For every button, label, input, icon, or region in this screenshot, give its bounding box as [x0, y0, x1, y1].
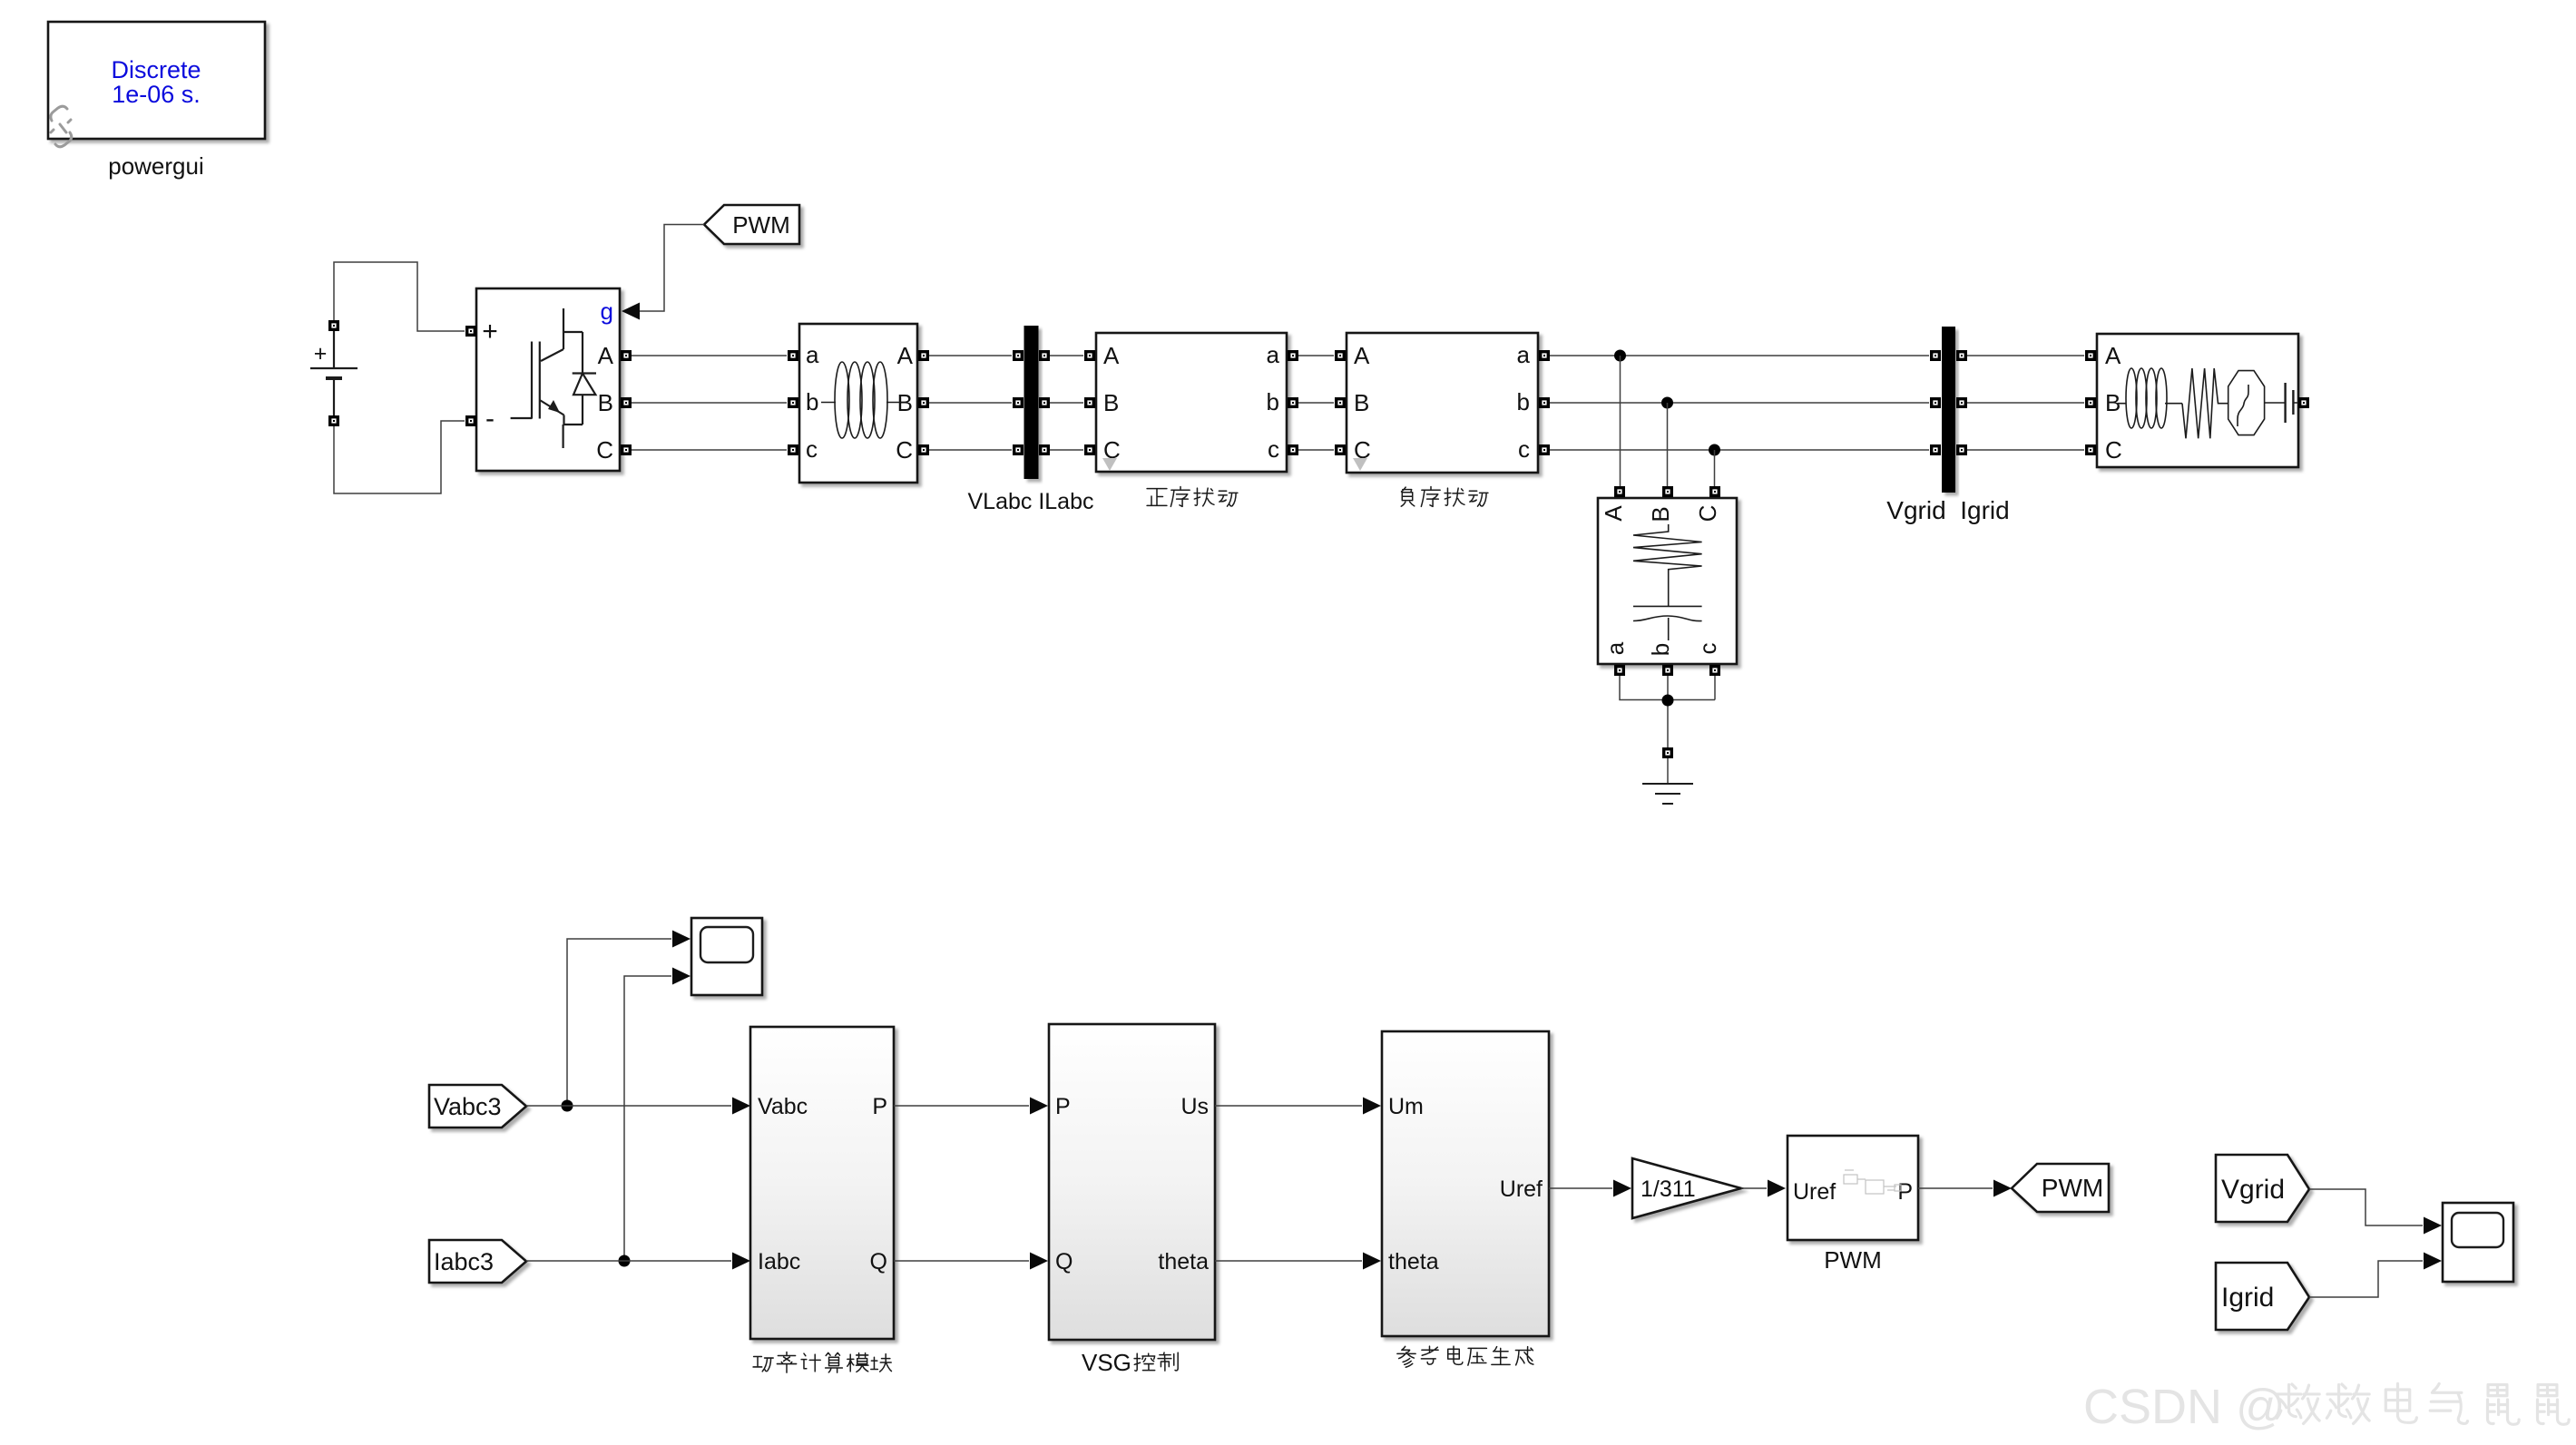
svg-text:powergui: powergui [108, 152, 204, 180]
svg-text:c: c [1268, 435, 1279, 463]
svg-text:C: C [596, 436, 613, 464]
svg-text:Iabc3: Iabc3 [434, 1248, 494, 1275]
svg-text:A: A [598, 342, 614, 369]
svg-text:Vgrid: Vgrid [2221, 1175, 2285, 1205]
svg-text:c: c [1694, 643, 1721, 655]
svg-text:C: C [896, 436, 913, 464]
svg-text:c: c [806, 435, 818, 463]
svg-text:Us: Us [1180, 1094, 1209, 1119]
svg-text:A: A [1600, 505, 1627, 522]
svg-text:b: b [1517, 388, 1530, 415]
svg-text:P: P [1897, 1179, 1913, 1205]
svg-text:PWM: PWM [1824, 1246, 1882, 1274]
svg-text:P: P [872, 1094, 887, 1119]
svg-text:a: a [1517, 341, 1531, 368]
svg-text:a: a [806, 341, 819, 368]
svg-text:1/311: 1/311 [1641, 1177, 1696, 1202]
svg-text:a: a [1601, 641, 1629, 655]
svg-text:Discrete: Discrete [111, 56, 201, 83]
svg-text:-: - [485, 404, 495, 434]
svg-text:Vgrid Igrid: Vgrid Igrid [1886, 496, 2009, 524]
svg-text:A: A [1354, 342, 1370, 369]
svg-text:C: C [2105, 436, 2122, 464]
svg-text:Igrid: Igrid [2221, 1283, 2274, 1313]
svg-text:+: + [482, 317, 498, 347]
svg-text:b: b [1267, 388, 1279, 415]
svg-text:Um: Um [1388, 1094, 1424, 1119]
svg-text:Q: Q [870, 1249, 887, 1274]
svg-text:A: A [897, 342, 914, 369]
svg-text:+: + [314, 341, 328, 366]
svg-text:Uref: Uref [1500, 1177, 1543, 1202]
svg-text:B: B [1103, 389, 1119, 416]
svg-text:Uref: Uref [1793, 1179, 1836, 1205]
svg-text:g: g [601, 298, 613, 325]
svg-text:A: A [2105, 342, 2121, 369]
svg-text:B: B [1354, 389, 1369, 416]
svg-text:a: a [1267, 341, 1280, 368]
svg-text:Vabc: Vabc [758, 1094, 808, 1119]
svg-text:1e-06 s.: 1e-06 s. [112, 81, 201, 108]
svg-text:VSG: VSG [1082, 1349, 1131, 1376]
svg-text:b: b [1647, 643, 1674, 656]
svg-text:Iabc: Iabc [758, 1249, 800, 1274]
svg-text:PWM: PWM [2042, 1174, 2103, 1202]
svg-text:theta: theta [1388, 1249, 1439, 1274]
svg-text:P: P [1055, 1094, 1071, 1119]
svg-text:b: b [806, 388, 818, 415]
svg-text:PWM: PWM [732, 211, 790, 239]
svg-text:B: B [1647, 506, 1674, 522]
svg-text:Vabc3: Vabc3 [434, 1093, 502, 1120]
svg-text:C: C [1694, 505, 1721, 522]
svg-text:CSDN @: CSDN @ [2083, 1380, 2286, 1434]
svg-text:A: A [1103, 342, 1120, 369]
svg-text:B: B [598, 389, 613, 416]
svg-text:c: c [1518, 435, 1530, 463]
svg-text:VLabc ILabc: VLabc ILabc [968, 489, 1094, 514]
svg-text:Q: Q [1055, 1249, 1073, 1274]
svg-text:theta: theta [1158, 1249, 1209, 1274]
